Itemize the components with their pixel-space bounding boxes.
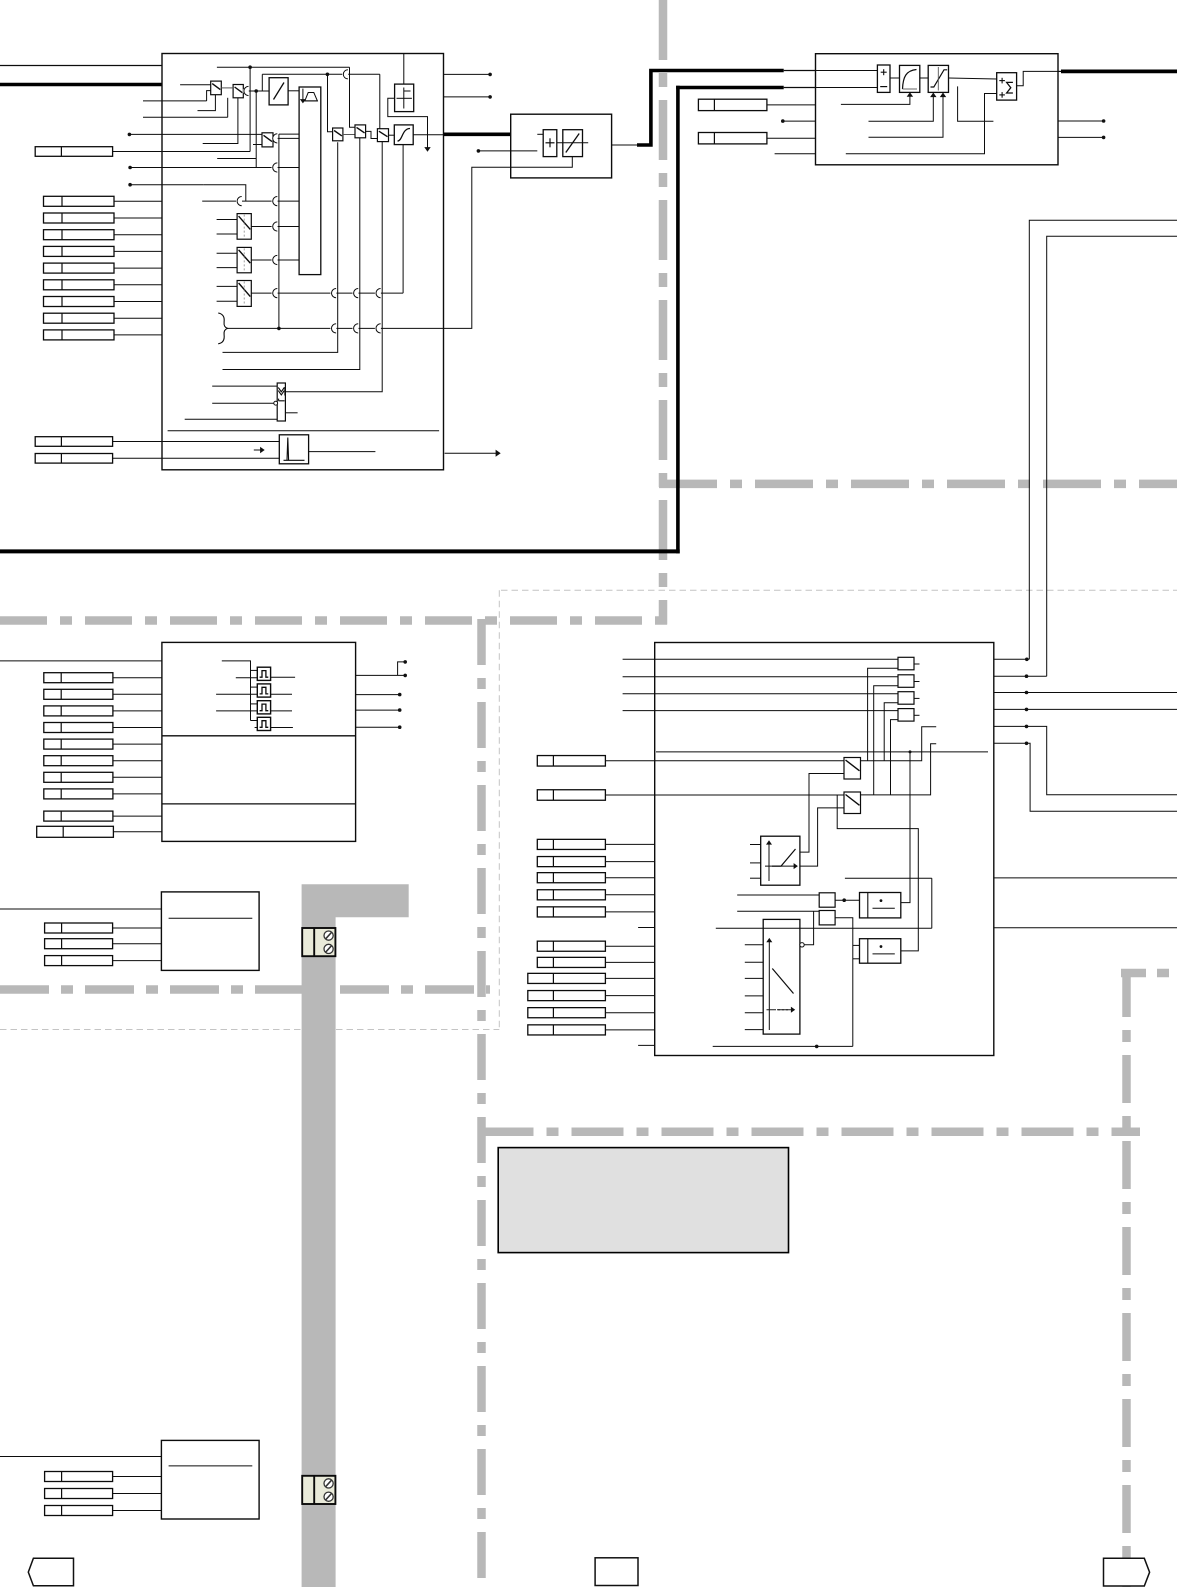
gray filled parameter box (498, 1148, 788, 1253)
sum block TS (997, 73, 1017, 100)
separator in S1L (169, 917, 253, 919)
wire S2 control hook (227, 98, 229, 118)
scaling square K4 (898, 709, 914, 722)
node input y=134.4 (128, 133, 132, 137)
wire M2 input stubs (853, 944, 860, 946)
ramp block symbol (trapezoid + arrow) (302, 89, 304, 101)
wire thick setpoint output y=134.3 (444, 133, 511, 137)
gray dash-dot border H4 (right stub y=973) (1121, 969, 1177, 978)
plus-minus block TA (877, 65, 890, 92)
wire L1 to ramp block (288, 90, 299, 92)
connector CM3 (537, 839, 605, 849)
connector CM10 (wide) (528, 973, 606, 983)
wire TR in5 up-arrow to TC (869, 96, 944, 137)
connector CS2-2 (45, 1489, 113, 1499)
wire under S2 (203, 98, 238, 144)
multiplier block M2 (860, 939, 901, 964)
wire K4 second input from Sb (891, 720, 899, 795)
wire CB7 to box (113, 776, 162, 778)
connector CA7 (44, 297, 115, 307)
wire CM7 to box (605, 911, 654, 913)
wire page input thin (top left) (0, 65, 162, 67)
wire output stub y=453.2 with arrow (445, 452, 497, 454)
wire SC output to box edge (413, 134, 443, 136)
connector CB2 (44, 689, 113, 699)
wire CM6 to box (605, 894, 654, 896)
wire B output row4 (356, 726, 398, 728)
wire MR output 1 to elbow e1 (994, 658, 1030, 660)
gray dash-dot border V3 (right vertical x=1126) (1122, 969, 1131, 1587)
wire D output (309, 451, 376, 453)
scaling square K1 (898, 657, 914, 670)
wire CM4 to box (605, 861, 654, 863)
connector CA5 (44, 263, 115, 273)
wire CM10 to box (605, 977, 654, 979)
wire stub y=158.5 (217, 158, 256, 160)
function block: fixed setpoints (mid-left box) (162, 642, 356, 841)
wire P top feed (403, 54, 405, 85)
wire K4 output stub (914, 714, 920, 716)
wire thick output of top-right box (1058, 70, 1062, 72)
wire MR output 2 to elbow e2 (994, 675, 1047, 677)
wire CA2 to box (114, 217, 162, 219)
wire B output row2 (356, 694, 398, 696)
wire stub into SW0 (253, 144, 262, 146)
wire CA5 to box (114, 267, 162, 269)
wire M1 output up (901, 752, 910, 903)
wire CB1 to box (113, 677, 162, 679)
plus block M1 (543, 130, 557, 157)
wire drop from line1 node (249, 67, 251, 151)
connector CS1-1 (45, 923, 113, 933)
wire MR top input stubs (623, 658, 655, 660)
switch S2 (233, 85, 243, 98)
gray dash-dot border H2 (left horizontal y=989) (0, 985, 490, 994)
switch Sb (844, 792, 861, 814)
wire y=201 into T (202, 200, 299, 202)
connector CS2-1 (45, 1472, 113, 1482)
wire B outputs row1 (double node) (356, 674, 404, 676)
selector switch SW3 (237, 281, 251, 307)
wire y=184.7 corner (203, 185, 246, 201)
connector CA1 (44, 196, 115, 206)
characteristic block CC1 (761, 836, 800, 885)
wire Sa output elbow (861, 727, 937, 761)
wire CA7 to box (114, 301, 162, 303)
wire CM5 to box (605, 877, 654, 879)
wire input stub y=117.3 (143, 116, 228, 118)
wire S2 output to limiter (243, 90, 269, 92)
coupling square Kk1 (819, 893, 835, 907)
function block: monitor box S1L (161, 892, 259, 971)
wire feed stub PB3 (251, 703, 258, 705)
connector CM9 (537, 957, 605, 967)
connector CM6 (537, 890, 605, 900)
separator line B2 (162, 803, 356, 805)
wire CT2 to box (767, 137, 816, 139)
wire S1 lower input hook (207, 91, 211, 101)
wire CB3 to box (113, 710, 162, 712)
wire S1 to S2 (221, 87, 233, 89)
wire stub y=352.4 to V_b (223, 142, 338, 352)
wire CB10 to box (113, 831, 161, 833)
wire MR output 4 (994, 708, 1177, 710)
pulse block PB1 (257, 667, 270, 680)
limiter block M2 (563, 130, 583, 157)
wire MR long line y=752 (656, 751, 988, 753)
wire y=328.4 to mid box (via elbow) (444, 167, 511, 328)
connector CB9 (44, 811, 113, 821)
wire CT1 to box (767, 104, 816, 106)
wire to square K_c (655, 693, 898, 695)
separator in S2L (169, 1465, 253, 1467)
wire SW3 output to x=403 (251, 292, 403, 294)
wire SW2 output to T (251, 259, 299, 261)
wire CC1 inputs (750, 844, 761, 846)
thin dashed section border horizontal y=590 (501, 589, 1177, 591)
brace symbol (218, 313, 227, 344)
wire input stubs to plus block (537, 133, 543, 135)
node input y=121.1 (781, 119, 785, 123)
wire OR input 3 (185, 418, 278, 420)
s-curve block SC (394, 125, 413, 145)
wire elbow feed e2 (right edge) (1047, 236, 1177, 676)
function block: speed setpoint channel (big box) (162, 54, 444, 470)
wire input stub y=927.5 (638, 927, 655, 929)
connector CM1 (537, 756, 605, 767)
wire MR output 3 (994, 692, 1177, 694)
wire input stub y=153.8 (775, 153, 816, 155)
wire CC1 out up to Sb (800, 808, 844, 866)
wire K3 second input from Sa (884, 703, 898, 761)
function block: setpoint sum (mid box) (511, 114, 612, 178)
wire bottom line y=1046.4 (713, 1045, 853, 1047)
wire page input thick (top left) (0, 83, 162, 87)
wire TR in1 (816, 70, 878, 72)
wire V_e from SC to SW3 line (402, 145, 404, 294)
terminal block X2 on gray bar (302, 1476, 335, 1504)
connector CS1-3 (45, 956, 113, 966)
wire node drop x=256.2 (255, 91, 257, 168)
connector CA0 (35, 147, 112, 157)
scaling square K3 (898, 692, 914, 705)
wire line2 drop to block C (379, 74, 381, 128)
switch A1 (333, 128, 343, 141)
wire feed stub PB2 (251, 686, 258, 688)
connector CA2 (44, 213, 115, 223)
scaling square K2 (898, 675, 914, 688)
connector CT1 (698, 99, 767, 110)
switch C1s (377, 129, 388, 142)
page tab right (next-page arrow) (1104, 1558, 1150, 1586)
wire to square K_a (655, 658, 898, 660)
gray dash-dot border V1 (top center vertical) (659, 0, 668, 625)
wire M2 output elbow (837, 795, 918, 951)
wire TR output y=121 with node (1058, 120, 1104, 122)
wire TR in6 to sum lower (846, 94, 997, 154)
page tab middle (595, 1558, 638, 1586)
wire Kk1 input (737, 894, 819, 896)
function block: torque limiting (top-right box) (816, 54, 1059, 165)
wire down-arrow after SC (427, 135, 429, 148)
wire SW3 inputs (217, 285, 238, 287)
wire CA9 to box (114, 334, 162, 336)
wire vertical x=278.9 (278, 134, 280, 328)
connector CA3 (44, 230, 115, 240)
gray dash-dot border H3 (bottom horizontal y=1132) (482, 1128, 1141, 1137)
wire A1 to B1 (343, 134, 355, 136)
wire to square K_d (655, 710, 898, 712)
wire SW2 inputs (217, 252, 238, 254)
wire MR output 6 (staircase down) (994, 743, 1177, 811)
wire SW1 output to T (251, 226, 299, 228)
pulse block PB2 (257, 684, 270, 697)
connector CM7 (537, 907, 605, 917)
connector CB7 (44, 772, 113, 782)
wire Kk2 input (737, 910, 819, 912)
wire input stub y=1045.4 (638, 1044, 655, 1046)
wire TA to TB (890, 77, 900, 79)
wire TB to TC (920, 77, 928, 79)
wire CA0 to box (113, 151, 251, 153)
wire CA11 to derivative block (113, 457, 280, 459)
wire V_a drop to A1 (328, 74, 333, 131)
multiplier block M1 (860, 893, 901, 918)
terminal block X1 on gray bar (302, 928, 335, 956)
wire output y=96.9 with node (444, 96, 491, 98)
wire TR in4 up-arrow to TC (869, 96, 934, 122)
wire line1 y=67.2 (217, 66, 350, 68)
gray dash-dot border H0 (right horizontal y=484) (659, 480, 1177, 489)
wire CB2 to box (113, 693, 162, 695)
wire SW0 outputs to T (273, 137, 299, 139)
wire drop x=931.8 (931, 878, 933, 928)
selector switch SW1 (237, 214, 251, 240)
connector CA9 (44, 330, 115, 340)
switch S1 (211, 81, 222, 95)
wire OR output to V_d (285, 142, 382, 392)
connector CA4 (44, 246, 115, 256)
wire CA4 to box (114, 250, 162, 252)
wire OR stub (285, 412, 297, 414)
wire TC output to sum (949, 78, 997, 79)
wire thin continuation y=87.5 (784, 87, 816, 89)
wire TS output step (1017, 71, 1058, 85)
connector CB6 (44, 756, 113, 766)
wire CS2-1 to box (113, 1476, 162, 1478)
wire through M blocks (557, 142, 588, 144)
wire thick bottom return y=551 (0, 549, 680, 553)
wire CM8 to box (605, 945, 654, 947)
pulse block PB3 (257, 701, 270, 714)
wire M box lower feed (511, 157, 573, 168)
gray dash-dot border H1 (left horizontal y=620) (0, 616, 667, 625)
wire CM3 to box (605, 843, 654, 845)
connector CB10 (wide) (37, 826, 114, 837)
wire K1 output stub (914, 663, 920, 665)
derivative block D (279, 435, 308, 464)
wire CB9 to box (113, 815, 162, 817)
wire CM11 to box (605, 995, 654, 997)
gray dash-dot border V2 (left vertical x=481) (477, 619, 486, 1587)
wire arrow marker into D (254, 449, 262, 451)
wire thick vertical x=678 (676, 86, 680, 554)
wire thick elbow from mid box output (637, 71, 784, 146)
wire C1s to S-curve (389, 134, 395, 136)
wire Kk2 elbow down (835, 918, 853, 1047)
gray module bar (vertical with top arm) (302, 884, 409, 1587)
connector CA11 (35, 454, 112, 464)
wire K2 second input from Sb (874, 686, 898, 795)
connector CB8 (44, 789, 113, 799)
wire CB4 to box (113, 727, 162, 729)
wire CM9 to box (605, 961, 654, 963)
wire M box output (612, 144, 638, 146)
connector CT2 (698, 133, 767, 144)
function block: speed controller (middle-right box) (655, 643, 994, 1056)
wire CB5 to box (113, 743, 162, 745)
wire CS2-2 to box (113, 1493, 162, 1495)
wire MR output 8 (994, 927, 1177, 929)
wire OR input 2 (inverted) (212, 402, 274, 404)
separator line B1 (162, 735, 356, 737)
wire CS1-2 to box (113, 943, 162, 945)
axes block P (setpoint cross) (395, 84, 414, 112)
wire CC2 output circle (800, 943, 804, 947)
function block: monitor box S2L (161, 1440, 259, 1519)
thin dashed section border vertical x=499 (498, 590, 500, 1029)
wire B output row3 (356, 709, 398, 711)
wire CA3 to box (114, 234, 162, 236)
wire Kk1 to mult M1 (835, 899, 859, 901)
connector CB4 (44, 723, 113, 733)
wire Sb output elbow (861, 744, 937, 795)
wire TR in3 up-arrow to TB (841, 96, 910, 105)
wire CC2 inputs (745, 944, 763, 946)
wire input stub y=100.9 (143, 100, 207, 102)
connector CM11 (wide) (528, 991, 606, 1001)
wire feed stub PB4 (251, 720, 258, 722)
wire CM1 to switch Sa (605, 760, 844, 762)
wire CA10 to derivative block (113, 441, 280, 443)
wire CS2-3 to box (113, 1510, 162, 1512)
wire feed stub PB1 (251, 669, 258, 671)
connector CM4 (537, 857, 605, 867)
connector CA8 (44, 313, 115, 323)
wire K1 second input from Sa (868, 668, 898, 761)
connector CB3 (44, 706, 113, 716)
connector CA6 (44, 280, 115, 290)
curve block TB (900, 65, 920, 92)
wire CS1-3 to box (113, 960, 162, 962)
wire input to S1 (180, 84, 211, 86)
node input y=150.9 (477, 149, 481, 153)
wire CB6 to box (113, 760, 162, 762)
selector switch SW2 (237, 247, 251, 272)
wire under S1 (198, 95, 216, 111)
ramp generator tall block T (299, 87, 321, 275)
switch B1 (355, 125, 366, 138)
wire CC1 out up to Sa (800, 774, 844, 853)
wire page line y=909 (0, 908, 161, 910)
limiter block TC (928, 65, 948, 92)
wire PB inputs (236, 677, 257, 679)
node input y=167.9 (128, 166, 132, 170)
wire brace line y=328.4 (227, 327, 444, 329)
switch Sa (844, 758, 861, 780)
connector CM5 (537, 873, 605, 883)
connector CA10 (35, 437, 112, 447)
wire CA6 to box (114, 284, 162, 286)
connector CM13 (wide) (528, 1025, 606, 1035)
or-gate >=1 (277, 383, 285, 421)
wire thick horizontal y=87.5 to right (676, 86, 784, 90)
switch SW0 (262, 133, 273, 147)
limiter block L1 (269, 78, 288, 105)
wire CM2 to switch Sb (605, 794, 844, 796)
connector CM12 (wide) (528, 1008, 606, 1018)
pulse block PB4 (257, 717, 270, 730)
node input y=184.7 (128, 183, 132, 187)
connector CS2-3 (45, 1506, 113, 1516)
connector CB1 (44, 673, 113, 683)
wire OR input 1 (212, 385, 277, 387)
wire pulse feed inside (222, 661, 251, 721)
wire MR output 7 (994, 877, 1177, 879)
wire page line y=660.9 (0, 660, 162, 662)
wire CM12 to box (605, 1012, 654, 1014)
wire line1 drop to switch B (350, 67, 356, 127)
wire page line y=1456.5 (0, 1456, 161, 1458)
wire MR output 5 (staircase down) (994, 726, 1177, 794)
wire CA8 to box (114, 317, 162, 319)
wire stub y=369.5 to V_c (223, 138, 360, 370)
connector CB5 (44, 739, 113, 749)
wire output y=74.4 with node (444, 73, 491, 75)
coupling square Kk2 (819, 911, 835, 925)
wire PB outputs (271, 676, 296, 678)
separator line in box A (168, 430, 440, 432)
wire line2 y=74.3 (262, 73, 380, 75)
thin dashed section border horizontal y=1029 (0, 1029, 499, 1031)
wire K2 output stub (914, 681, 920, 683)
wire K3 output stub (914, 697, 920, 699)
wire rise to line2 (261, 74, 263, 91)
wire CS1-1 to box (113, 927, 162, 929)
wire CM13 to box (605, 1029, 654, 1031)
wire P elbow to output line (388, 98, 428, 135)
connector CS1-2 (45, 939, 113, 949)
wire CB8 to box (113, 793, 162, 795)
wire TR output y=137.4 with node (1058, 136, 1104, 138)
wire SW1 inputs (217, 219, 238, 221)
connector CM2 (537, 790, 605, 801)
wire TR in2 to minus (816, 87, 878, 89)
wire inner line y=928.3 (716, 927, 932, 929)
page tab left (prev-page arrow) (28, 1558, 73, 1586)
wire to square K_b (655, 676, 898, 678)
wire CA1 to box (114, 200, 162, 202)
wire TC aux elbow (958, 86, 994, 121)
wire thin continuation y=70.5 (784, 70, 816, 72)
wire B1 to C1s (step) (366, 131, 378, 138)
ramp-down characteristic block CC2 (763, 919, 800, 1034)
wire elbow feed e1 (right edge) (1029, 220, 1177, 659)
wire inner line y=878 segment (845, 877, 932, 879)
connector CM8 (537, 941, 605, 951)
